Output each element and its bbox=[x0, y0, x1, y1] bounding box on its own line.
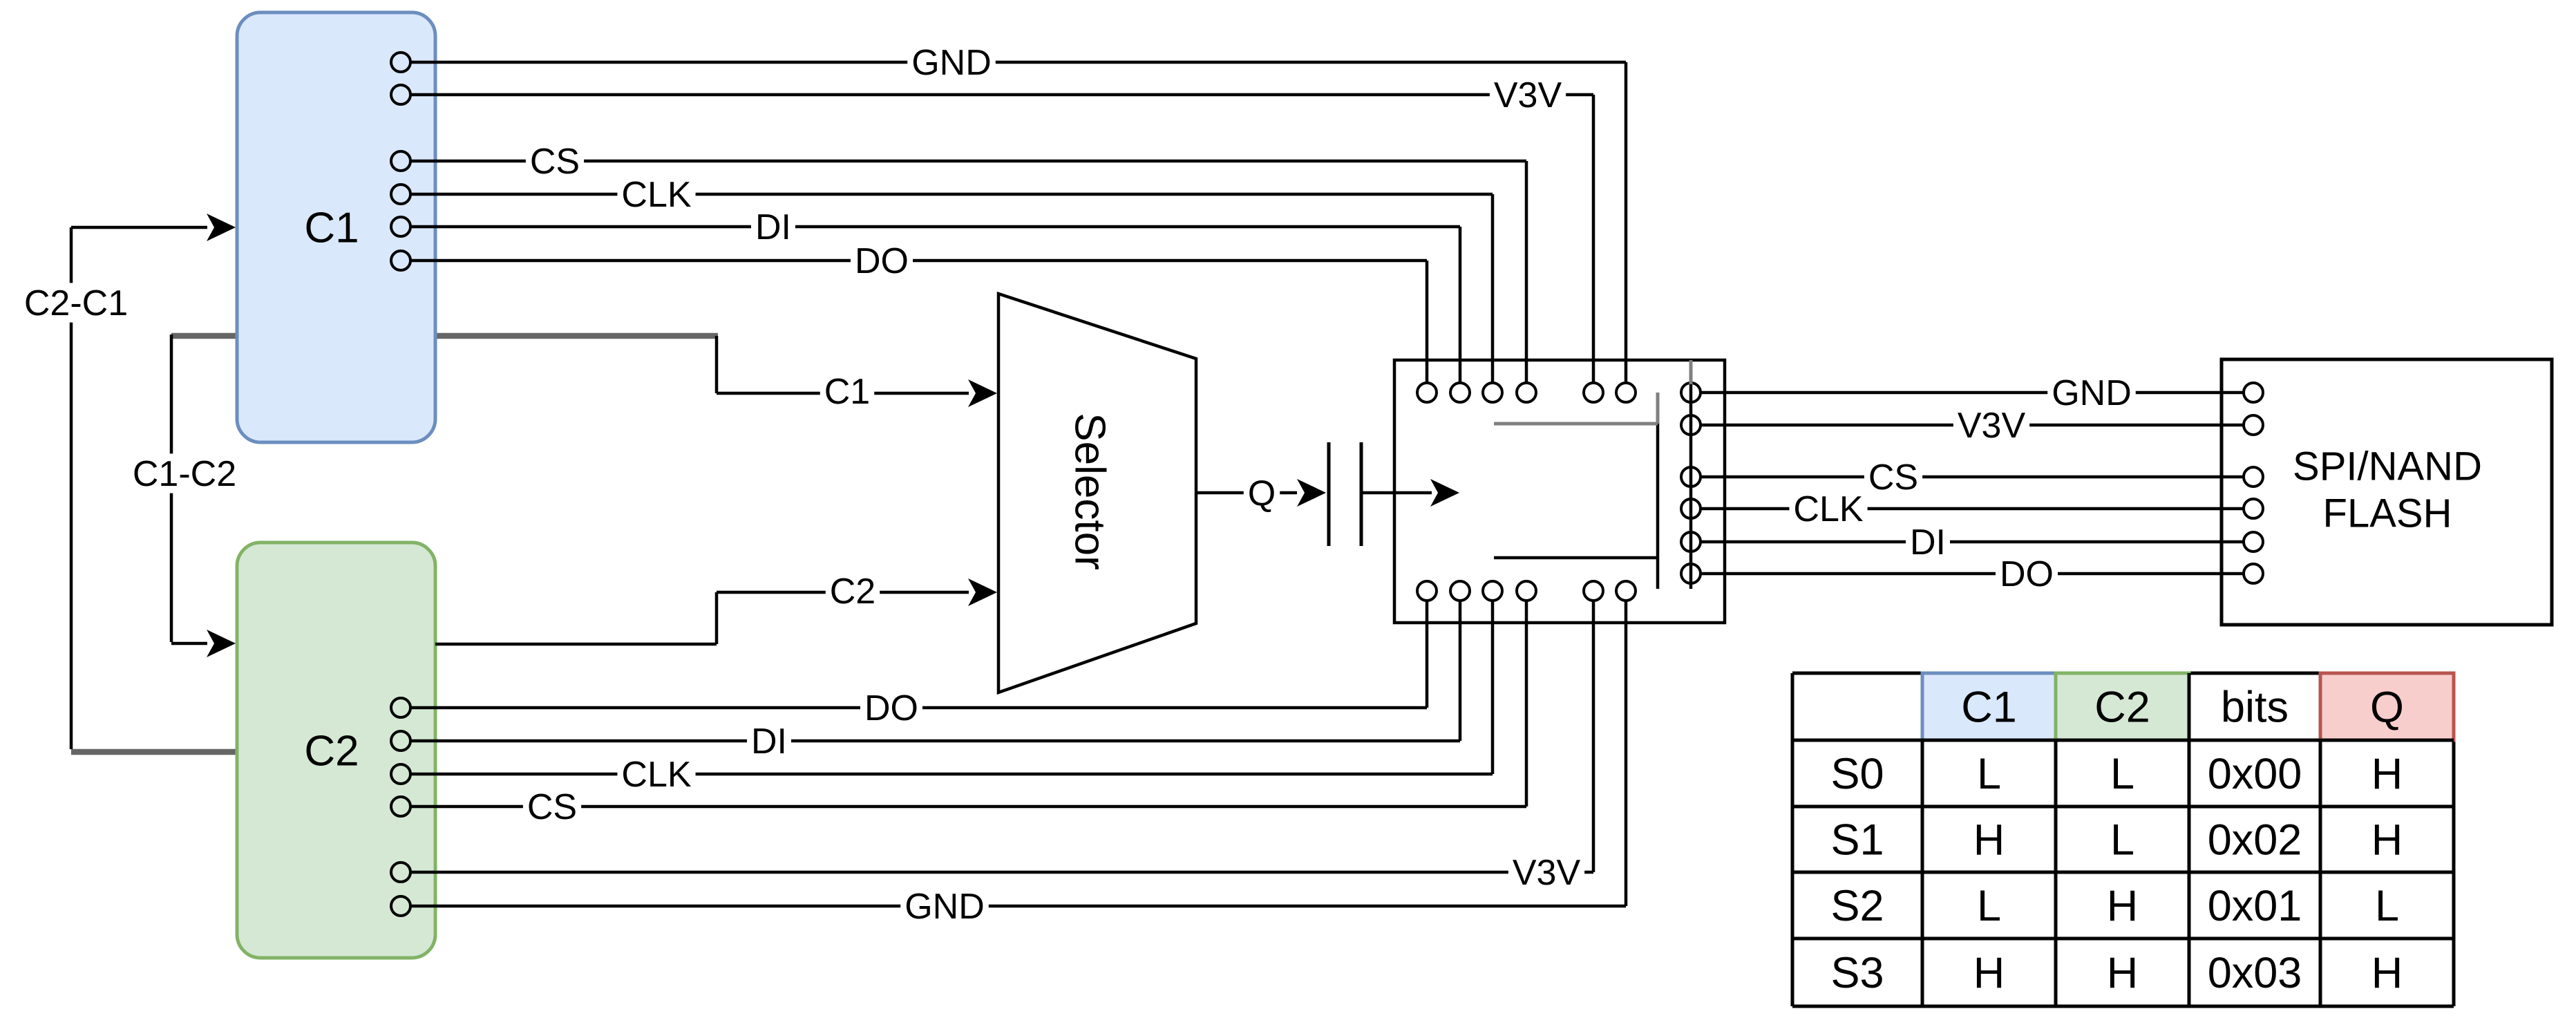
svg-text:C1: C1 bbox=[1961, 684, 2017, 732]
svg-text:L: L bbox=[2375, 882, 2399, 930]
wire C2-C1 into C1 with arrow bbox=[71, 214, 236, 241]
svg-text:H: H bbox=[2371, 949, 2403, 997]
truth table grid bbox=[1792, 673, 2454, 1006]
svg-text:L: L bbox=[2110, 750, 2134, 798]
svg-text:H: H bbox=[2107, 882, 2139, 930]
label C1 bbox=[304, 205, 359, 252]
table header cell C2 (green) bbox=[2056, 673, 2189, 740]
pin C1.DI bbox=[391, 217, 410, 236]
svg-text:C2: C2 bbox=[2094, 684, 2150, 732]
block C1 (rounded box) bbox=[237, 12, 435, 442]
flash memory U2 (box) bbox=[2222, 359, 2552, 625]
pin U1 bottom V3V bbox=[1584, 581, 1603, 601]
switch U1 (box) bbox=[1394, 360, 1725, 623]
pin U1 right CS bbox=[1681, 467, 1701, 487]
wire C1-C2 vertical bbox=[170, 334, 173, 642]
label C1-C2 bbox=[129, 453, 240, 494]
table header labels bbox=[1961, 684, 2404, 732]
label C1 (selector input) bbox=[820, 371, 874, 412]
svg-text:CS: CS bbox=[527, 787, 577, 827]
svg-text:CLK: CLK bbox=[621, 175, 691, 215]
block C2 (rounded box) bbox=[237, 543, 435, 958]
svg-text:0x01: 0x01 bbox=[2208, 882, 2302, 930]
svg-text:SPI/NAND: SPI/NAND bbox=[2293, 444, 2482, 489]
pin C1.V3V bbox=[391, 85, 410, 104]
pin U1 right GND bbox=[1681, 383, 1701, 402]
svg-text:0x03: 0x03 bbox=[2208, 949, 2302, 997]
svg-text:C2-C1: C2-C1 bbox=[24, 283, 128, 323]
svg-text:L: L bbox=[1977, 882, 2001, 930]
svg-text:S1: S1 bbox=[1830, 816, 1884, 865]
pin U2 DI bbox=[2244, 532, 2263, 552]
wire CLK (U1 to FLASH) bbox=[1701, 489, 2244, 529]
svg-text:GND: GND bbox=[911, 43, 992, 83]
wire DI (C2 to U1 bottom pin) bbox=[410, 601, 1460, 762]
wire C1 to selector (step + arrow) bbox=[717, 336, 997, 407]
svg-text:C1: C1 bbox=[824, 372, 870, 412]
wire DO (C1 to U1 top pin) bbox=[410, 241, 1427, 383]
table row S3 bbox=[1830, 949, 2403, 997]
U1 internal vertical bar bbox=[1656, 393, 1660, 589]
pin C2.CLK bbox=[391, 764, 410, 784]
svg-text:DO: DO bbox=[2000, 554, 2054, 594]
pin U1 bottom CLK bbox=[1483, 581, 1502, 601]
svg-text:L: L bbox=[2110, 816, 2134, 865]
svg-text:V3V: V3V bbox=[1513, 853, 1581, 893]
pin U1 right CLK bbox=[1681, 499, 1701, 518]
svg-text:S3: S3 bbox=[1830, 949, 1884, 997]
pin U1 bottom GND bbox=[1616, 581, 1636, 601]
wire Q (selector output) bbox=[1196, 491, 1297, 495]
pin U2 DO bbox=[2244, 564, 2263, 583]
wire V3V (U1 to FLASH) bbox=[1701, 405, 2244, 446]
pin U1 top V3V bbox=[1584, 383, 1603, 402]
capacitor C3 left plate bbox=[1327, 442, 1331, 546]
table header divider bbox=[1792, 739, 2454, 742]
svg-text:GND: GND bbox=[905, 887, 985, 927]
wire V3V (C1 to U1 top pin) bbox=[410, 75, 1593, 383]
wire CS (C2 to U1 bottom pin) bbox=[410, 601, 1526, 827]
svg-text:DO: DO bbox=[864, 688, 918, 728]
label C2 (selector input) bbox=[826, 571, 880, 612]
label C2-C1 bbox=[20, 283, 132, 323]
U1 internal bottom horizontal bbox=[1494, 556, 1658, 560]
svg-text:FLASH: FLASH bbox=[2323, 491, 2452, 536]
arrow Q into capacitor bbox=[1297, 479, 1326, 507]
wire C1-C2 horizontal segment (gray, passes behind C1) bbox=[171, 333, 718, 339]
svg-text:S2: S2 bbox=[1830, 882, 1884, 930]
table row S0 bbox=[1830, 750, 2403, 798]
table header cell C1 (blue) bbox=[1922, 673, 2056, 740]
pin U1 top DI bbox=[1450, 383, 1470, 402]
wire V3V (C2 to U1 bottom pin) bbox=[410, 601, 1593, 893]
pin C2.DI bbox=[391, 731, 410, 751]
table row S2 bbox=[1830, 882, 2399, 930]
svg-text:CS: CS bbox=[530, 142, 580, 182]
svg-text:DI: DI bbox=[1910, 522, 1946, 563]
wire DI (C1 to U1 top pin) bbox=[410, 207, 1460, 383]
svg-text:CLK: CLK bbox=[621, 755, 691, 795]
svg-text:0x02: 0x02 bbox=[2208, 816, 2302, 865]
wire CS (U1 to FLASH) bbox=[1701, 457, 2244, 498]
pin C2.DO bbox=[391, 698, 410, 717]
label C2 bbox=[304, 728, 359, 775]
pin C2.GND bbox=[391, 896, 410, 916]
wire GND (C2 to U1 bottom pin) bbox=[410, 601, 1626, 927]
pin U2 V3V bbox=[2244, 415, 2263, 435]
pin C1.CS bbox=[391, 151, 410, 171]
label SPI/NAND FLASH bbox=[2293, 444, 2482, 536]
svg-text:C2: C2 bbox=[830, 572, 875, 612]
svg-text:H: H bbox=[2107, 949, 2139, 997]
svg-text:GND: GND bbox=[2052, 373, 2132, 413]
capacitor C3 right plate bbox=[1360, 442, 1363, 546]
pin U2 CLK bbox=[2244, 499, 2263, 518]
pin U1 bottom CS bbox=[1517, 581, 1536, 601]
svg-text:Q: Q bbox=[1248, 473, 1276, 513]
svg-text:S0: S0 bbox=[1830, 750, 1884, 798]
svg-text:V3V: V3V bbox=[1494, 75, 1562, 115]
svg-text:0x00: 0x00 bbox=[2208, 750, 2302, 798]
svg-text:H: H bbox=[2371, 750, 2403, 798]
pin U1 bottom DO bbox=[1417, 581, 1437, 601]
pin U2 GND bbox=[2244, 383, 2263, 402]
wire C2-C1 vertical bbox=[70, 227, 73, 749]
wire GND (C1 to U1 top pin) bbox=[410, 42, 1626, 383]
svg-text:L: L bbox=[1977, 750, 2001, 798]
pin U2 CS bbox=[2244, 467, 2263, 487]
wire C2 to selector (step + arrow) bbox=[435, 578, 997, 644]
label Q bbox=[1244, 473, 1280, 513]
label Selector (rotated) bbox=[1066, 413, 1113, 569]
svg-text:Q: Q bbox=[2370, 684, 2404, 732]
pin U1 right V3V bbox=[1681, 415, 1701, 435]
pin U1 bottom DI bbox=[1450, 581, 1470, 601]
table header cell Q (red) bbox=[2320, 673, 2454, 740]
selector (mux trapezoid) bbox=[998, 294, 1196, 692]
svg-text:C1-C2: C1-C2 bbox=[133, 454, 236, 494]
pin U1 top GND bbox=[1616, 383, 1636, 402]
wire CLK (C2 to U1 bottom pin) bbox=[410, 601, 1493, 795]
U1 internal top horizontal (gray) bbox=[1494, 422, 1658, 426]
wire capacitor to U1 with arrow bbox=[1363, 479, 1459, 507]
svg-text:CS: CS bbox=[1868, 458, 1918, 498]
wire DO (U1 to FLASH) bbox=[1701, 554, 2244, 594]
pin C1.GND bbox=[391, 53, 410, 72]
svg-text:Selector: Selector bbox=[1066, 413, 1113, 569]
wire CLK (C1 to U1 top pin) bbox=[410, 174, 1493, 383]
pin U1 top CLK bbox=[1483, 383, 1502, 402]
svg-text:H: H bbox=[1973, 816, 2005, 865]
svg-text:H: H bbox=[1973, 949, 2005, 997]
wire GND (U1 to FLASH) bbox=[1701, 373, 2244, 413]
pin U1 top CS bbox=[1517, 383, 1536, 402]
svg-text:DI: DI bbox=[751, 722, 787, 762]
wire DI (U1 to FLASH) bbox=[1701, 522, 2244, 563]
pin C2.CS bbox=[391, 797, 410, 816]
svg-text:bits: bits bbox=[2221, 684, 2289, 732]
table header bits-cell left border (black over green) bbox=[2188, 673, 2191, 740]
wire CS (C1 to U1 top pin) bbox=[410, 141, 1526, 383]
svg-text:DI: DI bbox=[755, 207, 791, 247]
wire DO (C2 to U1 bottom pin) bbox=[410, 601, 1427, 728]
pin U1 right DO bbox=[1681, 564, 1701, 583]
wire C1-C2 into C2 with arrow bbox=[171, 630, 236, 657]
pin C2.V3V bbox=[391, 863, 410, 882]
svg-text:H: H bbox=[2371, 816, 2403, 865]
pin U1 right DI bbox=[1681, 532, 1701, 552]
U1 internal bus vertical (right pin column) bbox=[1689, 360, 1693, 589]
pin C1.CLK bbox=[391, 185, 410, 204]
pin U1 top DO bbox=[1417, 383, 1437, 402]
table row S1 bbox=[1830, 816, 2403, 865]
svg-text:C1: C1 bbox=[304, 205, 359, 252]
svg-text:V3V: V3V bbox=[1958, 406, 2026, 446]
svg-text:CLK: CLK bbox=[1793, 489, 1863, 529]
wire C2-C1 horizontal segment (gray, from C2 left edge) bbox=[71, 749, 239, 755]
pin C1.DO bbox=[391, 251, 410, 270]
svg-text:C2: C2 bbox=[304, 728, 359, 775]
svg-text:DO: DO bbox=[855, 241, 909, 281]
